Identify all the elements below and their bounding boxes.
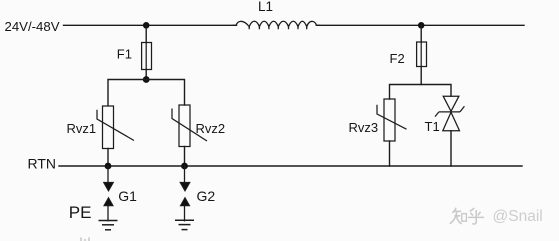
varistor Rvz3 xyxy=(377,99,407,141)
label Rvz2 xyxy=(196,121,226,136)
svg-text:L1: L1 xyxy=(258,0,273,14)
label Rvz3 xyxy=(349,120,379,135)
svg-text:F2: F2 xyxy=(390,51,405,66)
svg-text:PE: PE xyxy=(69,203,92,222)
varistor Rvz2 xyxy=(172,105,207,147)
svg-text:24V/-48V: 24V/-48V xyxy=(5,19,60,34)
svg-text:RTN: RTN xyxy=(28,156,57,172)
label PE xyxy=(69,203,92,222)
svg-text:Rvz1: Rvz1 xyxy=(67,121,97,136)
wire 24V rail left segment xyxy=(64,24,237,26)
label G1 xyxy=(118,188,137,204)
wire Rvz1 bottom lead xyxy=(107,149,109,167)
label F1 xyxy=(117,47,132,62)
label RTN xyxy=(28,156,57,172)
label T1 xyxy=(425,119,440,134)
junction node G1 on RTN xyxy=(105,163,112,170)
fuse F1 xyxy=(142,43,152,70)
wire branch horizontal to Rvz3 and T1 xyxy=(390,85,452,100)
wire F2 top lead xyxy=(420,25,422,42)
bidirectional TVS T1 xyxy=(435,96,464,131)
ground PE under G2 xyxy=(175,220,194,229)
junction node G2 on RTN xyxy=(181,163,188,170)
svg-text:G2: G2 xyxy=(197,188,216,204)
wire branch horizontal to Rvz1 and Rvz2 xyxy=(108,80,185,106)
ground PE under G1 xyxy=(99,221,118,230)
inductor L1 xyxy=(233,21,319,28)
watermark zhihu logo text xyxy=(450,208,483,224)
gas discharge tube G1 xyxy=(104,166,114,221)
fuse F2 xyxy=(417,42,427,67)
gas discharge tube G2 xyxy=(180,166,190,221)
label F2 xyxy=(390,51,405,66)
wire F1 top lead xyxy=(145,25,147,42)
wire Rvz3 bottom lead xyxy=(389,141,391,166)
junction node at F2 top xyxy=(418,22,425,29)
svg-text:T1: T1 xyxy=(425,119,440,134)
watermark remnant bottom left xyxy=(81,238,89,241)
svg-text:Rvz3: Rvz3 xyxy=(349,120,379,135)
varistor Rvz1 xyxy=(97,106,134,149)
label G2 xyxy=(197,188,216,204)
wire Rvz2 bottom lead xyxy=(184,147,186,167)
svg-text:G1: G1 xyxy=(118,188,137,204)
wire RTN rail xyxy=(59,165,522,167)
junction node at F1 top xyxy=(143,22,150,29)
net label 24V/-48V xyxy=(5,19,60,34)
wire F1 bottom lead xyxy=(145,70,147,80)
wire F2 bottom lead xyxy=(420,67,422,85)
watermark @Snail xyxy=(493,208,543,225)
junction node at branch split xyxy=(143,76,150,83)
svg-text:@Snail: @Snail xyxy=(493,208,543,225)
label Rvz1 xyxy=(67,121,97,136)
wire T1 bottom lead xyxy=(450,131,452,166)
label L1 xyxy=(258,0,273,14)
svg-text:F1: F1 xyxy=(117,47,132,62)
svg-text:Rvz2: Rvz2 xyxy=(196,121,226,136)
wire 24V rail right segment xyxy=(316,24,524,26)
